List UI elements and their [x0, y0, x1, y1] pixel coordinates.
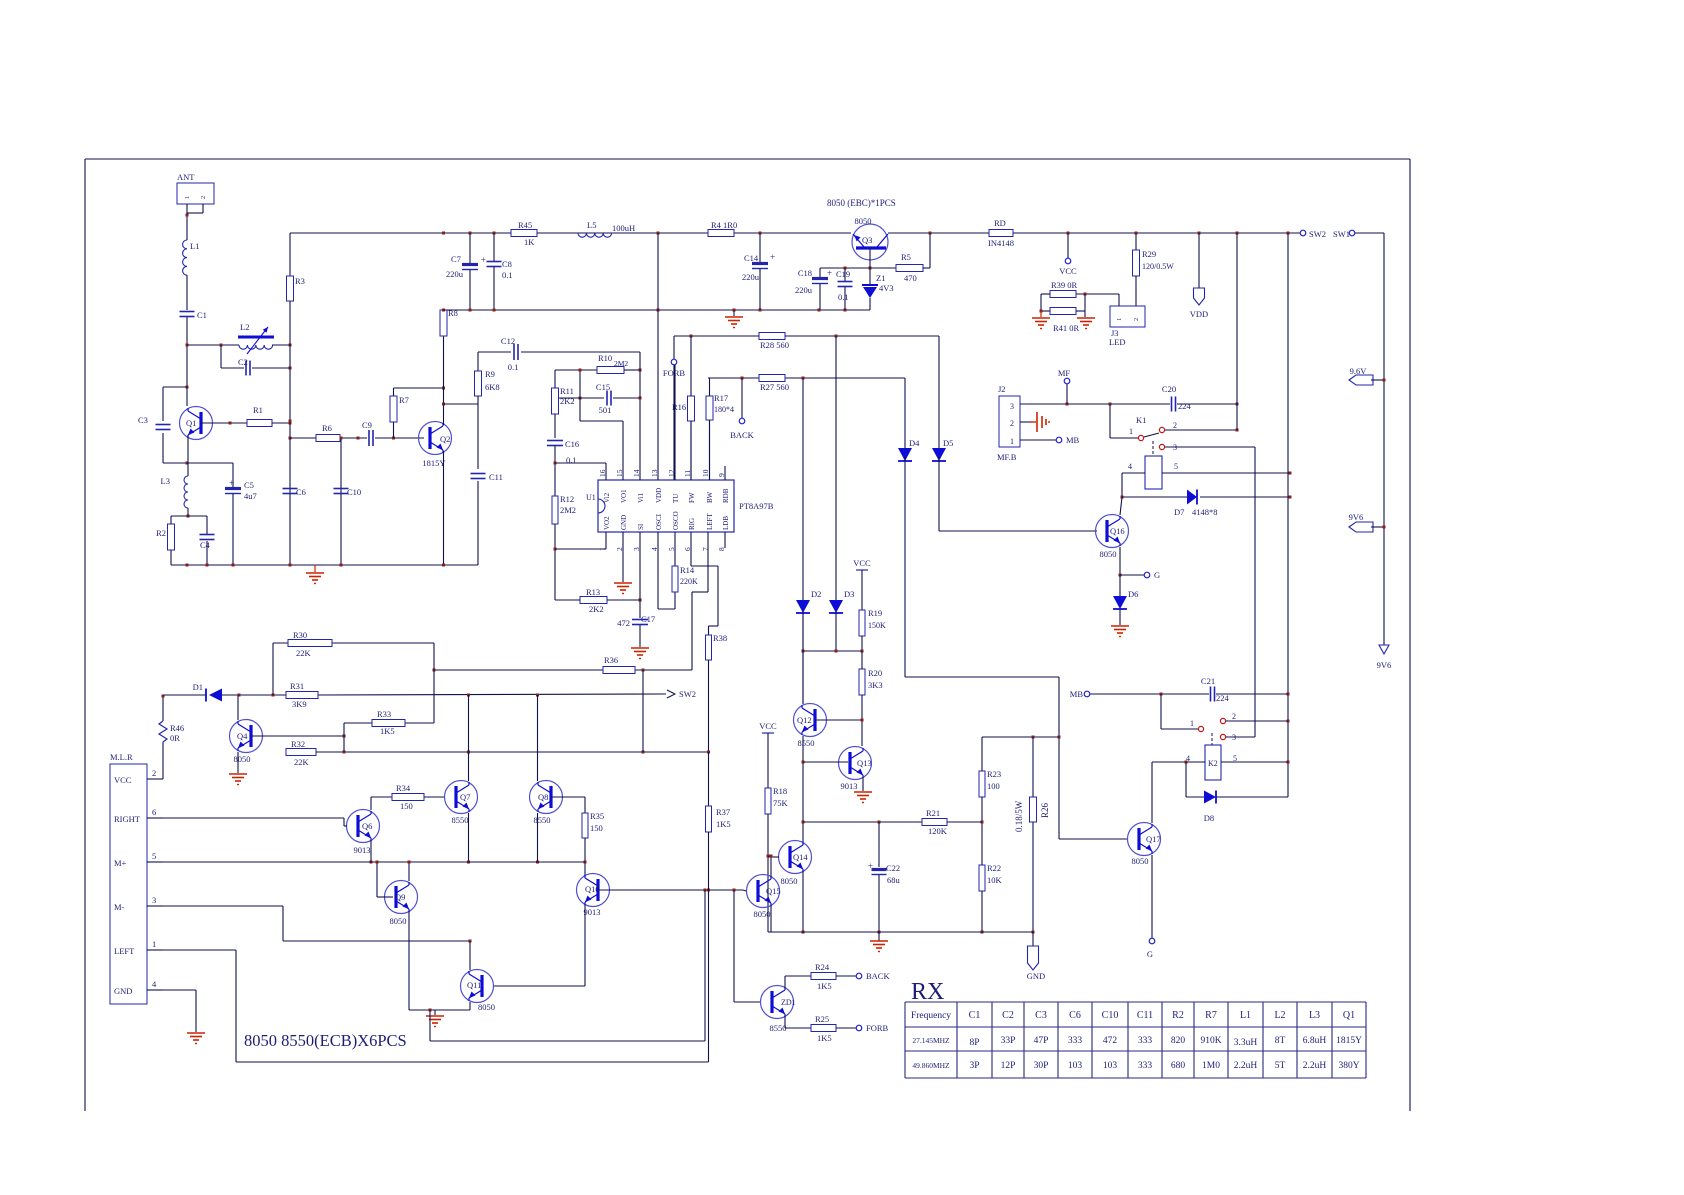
svg-text:LED: LED [1109, 337, 1126, 347]
svg-text:100: 100 [987, 781, 1000, 791]
svg-text:8050 (EBC)*1PCS: 8050 (EBC)*1PCS [827, 198, 896, 208]
svg-text:9.6V: 9.6V [1350, 366, 1368, 376]
svg-text:OSCO: OSCO [672, 511, 680, 530]
svg-text:D7: D7 [1174, 507, 1184, 517]
svg-text:1: 1 [1116, 318, 1123, 321]
svg-text:R33: R33 [377, 709, 391, 719]
svg-text:2: 2 [200, 196, 207, 199]
svg-text:2K2: 2K2 [589, 604, 604, 614]
svg-text:RD: RD [994, 218, 1006, 228]
svg-text:47P: 47P [1034, 1036, 1049, 1046]
svg-text:RIG: RIG [688, 518, 696, 530]
svg-text:4u7: 4u7 [244, 491, 257, 501]
svg-text:VO2: VO2 [603, 516, 611, 530]
svg-text:R24: R24 [815, 962, 830, 972]
svg-text:1: 1 [184, 196, 191, 199]
svg-text:OSCI: OSCI [655, 513, 663, 530]
svg-text:120K: 120K [928, 826, 948, 836]
svg-text:333: 333 [1138, 1061, 1153, 1071]
svg-text:FW: FW [688, 492, 696, 503]
svg-text:2: 2 [152, 768, 156, 778]
svg-text:C3: C3 [1035, 1010, 1047, 1021]
svg-text:6.8uH: 6.8uH [1303, 1036, 1327, 1046]
svg-text:+: + [827, 268, 832, 278]
svg-text:R2: R2 [1172, 1010, 1184, 1021]
svg-text:R30: R30 [293, 630, 307, 640]
svg-text:680: 680 [1171, 1061, 1186, 1071]
svg-text:RIGHT: RIGHT [114, 814, 141, 824]
svg-text:R9: R9 [485, 369, 495, 379]
svg-text:1M0: 1M0 [1202, 1061, 1220, 1071]
svg-text:J2: J2 [998, 384, 1006, 394]
svg-text:8P: 8P [969, 1038, 979, 1048]
svg-text:IN4148: IN4148 [988, 238, 1014, 248]
svg-text:180*4: 180*4 [714, 405, 734, 414]
svg-text:C12: C12 [501, 336, 515, 346]
svg-text:7: 7 [701, 547, 710, 551]
svg-text:2: 2 [1010, 419, 1014, 428]
svg-text:8550: 8550 [534, 815, 551, 825]
svg-text:FORB: FORB [866, 1023, 889, 1033]
svg-text:C8: C8 [502, 259, 512, 269]
svg-text:VDD: VDD [655, 488, 663, 503]
svg-text:C15: C15 [596, 382, 610, 392]
svg-text:C17: C17 [641, 614, 655, 624]
svg-text:Frequency: Frequency [911, 1011, 951, 1021]
svg-text:C20: C20 [1162, 384, 1176, 394]
svg-text:8050: 8050 [390, 916, 407, 926]
svg-text:0.1: 0.1 [508, 362, 519, 372]
svg-text:Q10: Q10 [585, 884, 600, 894]
svg-text:0.1: 0.1 [838, 292, 849, 302]
svg-text:C11: C11 [489, 472, 503, 482]
svg-text:C6: C6 [296, 487, 306, 497]
svg-text:K1: K1 [1136, 415, 1146, 425]
svg-text:SI: SI [637, 523, 645, 530]
svg-text:9013: 9013 [354, 845, 371, 855]
svg-text:R19: R19 [868, 608, 882, 618]
svg-text:L2: L2 [1274, 1010, 1285, 1021]
svg-text:8050: 8050 [1100, 549, 1117, 559]
svg-text:U1: U1 [586, 493, 596, 502]
svg-text:+: + [770, 252, 775, 262]
svg-text:103: 103 [1103, 1061, 1118, 1071]
svg-text:G: G [1147, 949, 1153, 959]
svg-text:C2: C2 [238, 357, 248, 367]
svg-text:LDB: LDB [722, 516, 730, 530]
svg-text:C11: C11 [1137, 1010, 1153, 1021]
svg-text:R7: R7 [1205, 1010, 1217, 1021]
svg-text:2.2uH: 2.2uH [1234, 1061, 1258, 1071]
svg-text:10K: 10K [987, 875, 1003, 885]
svg-text:Q1: Q1 [1343, 1010, 1355, 1021]
svg-text:D8: D8 [1204, 813, 1214, 823]
svg-text:220u: 220u [446, 269, 464, 279]
svg-text:224: 224 [1178, 401, 1192, 411]
svg-text:2.2uH: 2.2uH [1303, 1061, 1327, 1071]
svg-text:R45: R45 [518, 220, 532, 230]
svg-text:VDD: VDD [1190, 309, 1208, 319]
svg-text:6K8: 6K8 [485, 382, 500, 392]
svg-text:Q4: Q4 [237, 731, 248, 741]
svg-text:LEFT: LEFT [114, 946, 135, 956]
svg-text:333: 333 [1138, 1036, 1153, 1046]
svg-text:3.3uH: 3.3uH [1234, 1038, 1258, 1048]
svg-text:Q13: Q13 [857, 758, 872, 768]
svg-text:Q8: Q8 [538, 792, 548, 802]
svg-text:BACK: BACK [730, 430, 754, 440]
svg-text:SW1: SW1 [1333, 229, 1350, 239]
svg-text:C22: C22 [886, 863, 900, 873]
svg-text:R12: R12 [560, 494, 574, 504]
svg-text:C14: C14 [744, 253, 759, 263]
svg-text:100uH: 100uH [612, 223, 635, 233]
svg-text:1: 1 [1190, 719, 1194, 728]
svg-text:Q12: Q12 [797, 715, 812, 725]
svg-text:8050: 8050 [855, 216, 872, 226]
svg-text:8T: 8T [1275, 1036, 1286, 1046]
svg-text:910K: 910K [1200, 1036, 1221, 1046]
svg-text:8050: 8050 [781, 876, 798, 886]
svg-text:K2: K2 [1208, 759, 1218, 768]
svg-text:MF.B: MF.B [997, 452, 1017, 462]
svg-text:8050: 8050 [1132, 856, 1149, 866]
svg-text:8050: 8050 [234, 754, 251, 764]
svg-text:R29: R29 [1142, 249, 1156, 259]
svg-text:RDB: RDB [722, 488, 730, 503]
svg-text:1K5: 1K5 [817, 1033, 832, 1043]
svg-text:R41 0R: R41 0R [1053, 323, 1080, 333]
svg-text:103: 103 [1068, 1061, 1083, 1071]
svg-text:8050 8550(ECB)X6PCS: 8050 8550(ECB)X6PCS [244, 1031, 407, 1050]
svg-text:R18: R18 [773, 786, 787, 796]
svg-text:0R: 0R [170, 733, 180, 743]
svg-text:12P: 12P [1001, 1061, 1016, 1071]
svg-text:8550: 8550 [770, 1023, 787, 1033]
svg-text:Q2: Q2 [440, 434, 450, 444]
svg-text:L2: L2 [240, 322, 249, 332]
svg-text:L1: L1 [190, 241, 199, 251]
svg-text:820: 820 [1171, 1036, 1186, 1046]
svg-text:D2: D2 [811, 589, 821, 599]
svg-text:ZD1: ZD1 [781, 998, 796, 1007]
svg-text:L5: L5 [587, 220, 596, 230]
svg-text:220u: 220u [742, 272, 760, 282]
svg-text:R2: R2 [156, 528, 166, 538]
svg-text:R1: R1 [253, 405, 263, 415]
svg-text:Vi1: Vi1 [637, 492, 645, 503]
svg-text:0.1: 0.1 [502, 270, 513, 280]
svg-text:472: 472 [1103, 1036, 1118, 1046]
svg-text:R20: R20 [868, 668, 882, 678]
svg-text:C10: C10 [1102, 1010, 1119, 1021]
svg-text:R34: R34 [396, 783, 411, 793]
svg-text:L3: L3 [161, 476, 170, 486]
svg-text:3K9: 3K9 [292, 699, 307, 709]
svg-text:1: 1 [1010, 437, 1014, 446]
svg-text:1815Y: 1815Y [1336, 1036, 1362, 1046]
svg-text:1: 1 [152, 939, 156, 949]
svg-text:PT8A97B: PT8A97B [739, 501, 774, 511]
svg-text:VO1: VO1 [620, 489, 628, 503]
svg-text:5T: 5T [1275, 1061, 1286, 1071]
svg-text:R11: R11 [560, 386, 574, 396]
svg-text:2M2: 2M2 [614, 359, 628, 368]
svg-text:150: 150 [590, 823, 603, 833]
svg-text:ANT: ANT [177, 172, 195, 182]
svg-text:33P: 33P [1001, 1036, 1016, 1046]
svg-text:D5: D5 [943, 438, 953, 448]
svg-text:120/0.5W: 120/0.5W [1142, 262, 1174, 271]
svg-text:27.145MHZ: 27.145MHZ [912, 1036, 950, 1045]
svg-text:VCC: VCC [853, 558, 871, 568]
svg-text:R10: R10 [598, 353, 612, 363]
svg-text:C9: C9 [362, 420, 372, 430]
svg-text:9013: 9013 [841, 781, 858, 791]
svg-text:Q14: Q14 [793, 852, 808, 862]
svg-text:R7: R7 [399, 395, 409, 405]
svg-text:5: 5 [152, 851, 156, 861]
svg-text:5: 5 [1174, 462, 1178, 471]
svg-text:Q6: Q6 [362, 821, 372, 831]
svg-text:68u: 68u [887, 875, 901, 885]
svg-text:R5: R5 [901, 252, 911, 262]
svg-text:9V6: 9V6 [1377, 660, 1392, 670]
svg-text:22K: 22K [296, 648, 312, 658]
svg-text:GND: GND [620, 515, 628, 530]
svg-text:4V3: 4V3 [879, 283, 894, 293]
svg-text:1K5: 1K5 [817, 981, 832, 991]
svg-text:8550: 8550 [798, 738, 815, 748]
svg-text:D4: D4 [909, 438, 920, 448]
svg-text:M-: M- [114, 902, 125, 912]
svg-text:MB: MB [1066, 435, 1080, 445]
svg-text:R26: R26 [1040, 802, 1050, 818]
svg-text:1K: 1K [524, 237, 535, 247]
svg-text:C19: C19 [836, 269, 850, 279]
svg-text:SW2: SW2 [679, 689, 696, 699]
svg-text:1815Y: 1815Y [422, 458, 445, 468]
svg-text:R37: R37 [716, 807, 730, 817]
svg-text:R36: R36 [604, 655, 618, 665]
svg-text:C7: C7 [451, 254, 461, 264]
svg-text:10: 10 [701, 469, 710, 477]
svg-text:TU: TU [672, 494, 680, 503]
svg-text:C4: C4 [200, 540, 211, 550]
svg-text:2K2: 2K2 [560, 396, 575, 406]
svg-text:1K5: 1K5 [380, 726, 395, 736]
svg-text:R13: R13 [586, 587, 600, 597]
svg-text:R4 1R0: R4 1R0 [711, 220, 737, 230]
svg-text:8050: 8050 [478, 1002, 495, 1012]
svg-text:R28 560: R28 560 [760, 340, 789, 350]
svg-text:Q15: Q15 [766, 886, 781, 896]
svg-text:R32: R32 [291, 739, 305, 749]
svg-text:M+: M+ [114, 858, 127, 868]
svg-text:R23: R23 [987, 769, 1001, 779]
svg-text:501: 501 [599, 405, 612, 415]
svg-text:R17: R17 [714, 393, 728, 403]
svg-text:R31: R31 [290, 681, 304, 691]
svg-text:8550: 8550 [452, 815, 469, 825]
svg-text:Q1: Q1 [186, 418, 196, 428]
svg-text:R6: R6 [322, 423, 332, 433]
svg-text:6: 6 [152, 807, 156, 817]
svg-text:30P: 30P [1034, 1061, 1049, 1071]
svg-text:2: 2 [1232, 712, 1236, 721]
svg-text:2: 2 [1173, 421, 1177, 430]
svg-text:472: 472 [617, 618, 630, 628]
svg-text:150: 150 [400, 801, 413, 811]
svg-text:LEFT: LEFT [706, 513, 714, 530]
svg-text:R3: R3 [295, 276, 305, 286]
svg-text:VCC: VCC [1059, 266, 1077, 276]
svg-text:R46: R46 [170, 723, 184, 733]
svg-text:R22: R22 [987, 863, 1001, 873]
svg-text:C16: C16 [565, 439, 579, 449]
svg-text:333: 333 [1068, 1036, 1083, 1046]
svg-text:Q11: Q11 [467, 980, 481, 990]
svg-text:VCC: VCC [759, 721, 777, 731]
svg-text:9V6: 9V6 [1349, 512, 1364, 522]
svg-text:Vi2: Vi2 [603, 492, 611, 503]
svg-text:RX: RX [911, 979, 944, 1005]
svg-text:380Y: 380Y [1338, 1061, 1359, 1071]
svg-text:2: 2 [1133, 318, 1140, 321]
svg-text:R21: R21 [926, 808, 940, 818]
svg-text:4: 4 [1128, 462, 1132, 471]
svg-text:150K: 150K [868, 621, 886, 630]
svg-text:3P: 3P [969, 1061, 979, 1071]
svg-text:BW: BW [706, 491, 714, 503]
svg-text:+: + [481, 255, 486, 265]
svg-text:3K3: 3K3 [868, 680, 883, 690]
svg-text:G: G [1154, 570, 1160, 580]
svg-text:Q17: Q17 [1146, 834, 1161, 844]
svg-text:VCC: VCC [114, 775, 132, 785]
svg-text:2M2: 2M2 [560, 505, 576, 515]
svg-text:D1: D1 [193, 682, 203, 692]
svg-text:R27 560: R27 560 [760, 382, 789, 392]
svg-text:470: 470 [904, 273, 917, 283]
svg-text:D6: D6 [1128, 589, 1138, 599]
svg-text:C6: C6 [1069, 1010, 1081, 1021]
svg-text:C1: C1 [197, 310, 207, 320]
svg-text:D3: D3 [844, 589, 854, 599]
svg-text:SW2: SW2 [1309, 229, 1326, 239]
svg-text:220K: 220K [680, 577, 698, 586]
svg-text:C18: C18 [798, 268, 812, 278]
svg-text:R39 0R: R39 0R [1051, 280, 1078, 290]
svg-text:Z1: Z1 [876, 273, 885, 283]
svg-text:R35: R35 [590, 811, 604, 821]
svg-text:Q9: Q9 [395, 892, 405, 902]
svg-text:C21: C21 [1201, 676, 1215, 686]
svg-text:L3: L3 [1309, 1010, 1320, 1021]
svg-text:8050: 8050 [754, 909, 771, 919]
svg-text:1: 1 [1129, 427, 1133, 436]
svg-text:4148*8: 4148*8 [1192, 507, 1218, 517]
svg-text:GND: GND [1027, 971, 1045, 981]
svg-text:GND: GND [114, 986, 132, 996]
svg-text:75K: 75K [773, 798, 789, 808]
svg-text:9013: 9013 [584, 907, 601, 917]
svg-text:MB: MB [1070, 689, 1084, 699]
svg-text:C2: C2 [1002, 1010, 1014, 1021]
svg-text:1K5: 1K5 [716, 819, 731, 829]
svg-text:+: + [229, 478, 234, 488]
svg-text:+: + [868, 861, 873, 871]
svg-text:R25: R25 [815, 1014, 829, 1024]
svg-text:Q3: Q3 [862, 235, 872, 245]
svg-text:Q16: Q16 [1110, 526, 1125, 536]
svg-text:3: 3 [1010, 402, 1014, 411]
svg-text:C5: C5 [244, 480, 254, 490]
svg-text:C10: C10 [347, 487, 361, 497]
svg-text:R38: R38 [713, 633, 727, 643]
svg-text:MF: MF [1058, 368, 1071, 378]
svg-text:C1: C1 [969, 1010, 981, 1021]
svg-text:C3: C3 [138, 415, 148, 425]
svg-text:R16: R16 [672, 402, 686, 412]
svg-text:BACK: BACK [866, 971, 890, 981]
svg-text:3: 3 [152, 895, 156, 905]
svg-text:L1: L1 [1240, 1010, 1251, 1021]
svg-text:49.860MHZ: 49.860MHZ [912, 1061, 950, 1070]
svg-text:220u: 220u [795, 285, 813, 295]
svg-text:22K: 22K [294, 757, 310, 767]
svg-text:Q7: Q7 [460, 792, 470, 802]
svg-text:M.L.R: M.L.R [110, 752, 133, 762]
svg-text:0.18/5W: 0.18/5W [1014, 800, 1024, 832]
